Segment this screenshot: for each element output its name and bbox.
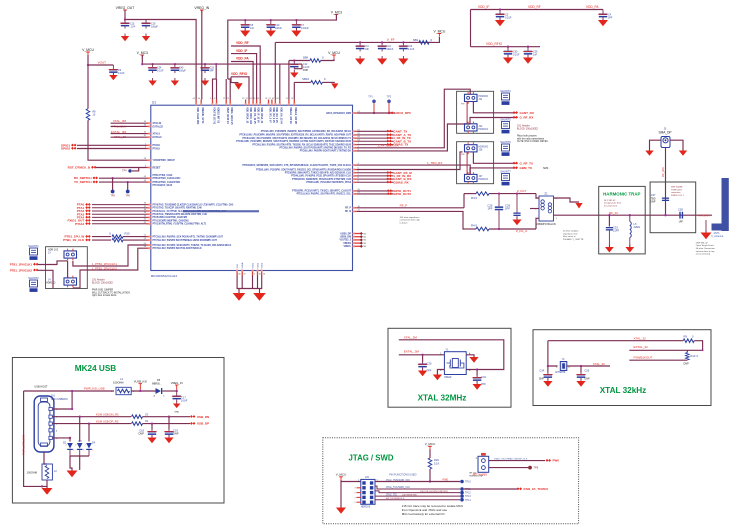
svg-text:XTAL 32kHz: XTAL 32kHz — [600, 386, 647, 395]
wire block out route2 — [110, 248, 147, 270]
wire GPIO2 — [77, 148, 147, 150]
svg-text:RF_P: RF_P — [400, 204, 408, 208]
svg-text:.1UF: .1UF — [130, 26, 136, 29]
wire R10 corner — [629, 341, 702, 351]
capacitor C15 0.1uF — [120, 20, 136, 29]
svg-text:VDD_PA: VDD_PA — [586, 5, 599, 9]
ground below C21 — [377, 56, 387, 65]
node 32k cap tap right — [580, 365, 582, 367]
MCU right pins NC stubs — [340, 232, 367, 248]
svg-text:PTD5/ADC0_SE6B/SPI0_PCS2/UART0: PTD5/ADC0_SE6B/SPI0_PCS2/UART0 CTS/FTM0_… — [292, 178, 352, 181]
net label RF_AM vertical — [661, 167, 665, 177]
svg-text:STACK DLY 1: STACK DLY 1 — [671, 194, 685, 197]
capacitor C8 1nF — [240, 19, 254, 30]
svg-text:7PF: 7PF — [481, 382, 486, 386]
svg-text:100pF: 100pF — [151, 26, 158, 29]
svg-text:PTB1_1PU/CLK2: PTB1_1PU/CLK2 — [10, 268, 33, 272]
svg-text:KSI9 USB DP_R5: KSI9 USB DP_R5 — [96, 420, 119, 424]
wire rail64 corner — [294, 64, 302, 69]
svg-text:SHUNT2: SHUNT2 — [28, 276, 39, 280]
svg-text:DNP: DNP — [139, 432, 145, 436]
svg-text:10K RESET(B): 10K RESET(B) — [402, 494, 417, 496]
svg-text:USB0_DP: USB0_DP — [340, 233, 351, 235]
node TP joints — [373, 112, 390, 114]
svg-text:KSI9_1K_TCMCU: KSI9_1K_TCMCU — [524, 487, 549, 491]
shunt SHUNT5 — [500, 118, 511, 134]
box MK24 USB outline — [12, 358, 224, 504]
svg-text:R10: R10 — [691, 354, 696, 358]
net label PWR_KSI_USB — [84, 387, 105, 391]
capacitor C30 0.1uF — [503, 46, 520, 57]
svg-text:PW0: PW0 — [443, 478, 449, 482]
wire Y1 pin4 gnd — [466, 355, 474, 357]
net label GANT_RX — [513, 111, 534, 115]
svg-text:EXTAL0: EXTAL0 — [153, 136, 163, 139]
svg-text:SH J14: SH J14 — [469, 473, 477, 475]
svg-text:SW_DIO/SWDCLK: SW_DIO/SWDCLK — [386, 498, 405, 500]
title HARMONIC TRAP — [603, 191, 640, 196]
svg-text:100OHM: 100OHM — [113, 380, 123, 384]
svg-text:VDD_IF3_3 V9: VDD_IF3_3 V9 — [275, 107, 277, 123]
inductor L5 22nH — [630, 215, 640, 247]
ground arrow SB10 — [331, 83, 338, 89]
svg-text:PTA5/USB CLK/FTM0_CH2/CM0: PTA5/USB CLK/FTM0_CH2/CM0 — [153, 216, 188, 219]
svg-text:Open Single Feed: Open Single Feed — [696, 245, 714, 247]
title XTAL 32kHz — [600, 386, 647, 395]
connector J27 HDR1X2 — [465, 172, 489, 184]
test point TP6 — [126, 190, 131, 198]
MCU right pins group2 — [243, 163, 360, 184]
ground below C24 — [148, 78, 156, 86]
svg-text:50 ohm stripline: 50 ohm stripline — [563, 230, 579, 233]
net label VDD_RF — [236, 41, 249, 45]
resistor R26 5.1K — [428, 458, 439, 469]
svg-text:USB_DN: USB_DN — [197, 415, 209, 419]
wire SB9 to V_MCU — [321, 59, 334, 61]
svg-text:to balun: to balun — [400, 222, 409, 225]
wire R11 top link — [686, 350, 688, 352]
svg-text:PWR GND JUMPER: PWR GND JUMPER — [92, 290, 114, 292]
svg-text:PTE1/LLWU_P0/SPI1_SOUT/UART1_R: PTE1/LLWU_P0/SPI1_SOUT/UART1_RX/I2C1_SCL — [297, 193, 352, 196]
wire row7 to jumper box1 — [357, 124, 470, 151]
value label RF note — [563, 230, 584, 241]
svg-text:impedance line: impedance line — [563, 233, 578, 235]
svg-text:VSS3: VSS3 — [262, 262, 264, 268]
ground below C9 — [109, 73, 117, 81]
svg-text:V_MCU: V_MCU — [425, 442, 436, 446]
svg-text:DNP: DNP — [173, 432, 179, 436]
power flag VREG_IN usb — [171, 381, 183, 391]
svg-text:VDD_RF2A_33: VDD_RF2A_33 — [246, 107, 249, 124]
net label VDD_RFIO — [231, 72, 248, 76]
node TP6 drop — [127, 181, 129, 183]
svg-text:C34: C34 — [539, 370, 544, 373]
node VREG_OUT junction — [124, 18, 126, 20]
svg-text:Z_FIL_A: Z_FIL_A — [516, 229, 527, 233]
connector J12 HDR1X2 — [465, 122, 489, 134]
MCU side stubs J15 odd pins — [354, 488, 360, 504]
svg-text:VDDA_ADC3 V0: VDDA_ADC3 V0 — [230, 107, 233, 125]
svg-text:100pF: 100pF — [179, 70, 186, 73]
wires JTAG rows — [375, 486, 460, 500]
MCU left pins PTB group — [144, 235, 232, 250]
wire R3 to C25 — [489, 193, 536, 195]
ground below C11 — [355, 56, 365, 65]
svg-text:RF_AM: RF_AM — [661, 167, 665, 177]
wire SMA to match box — [665, 148, 667, 216]
svg-text:PTC0/ADC0_SE14: PTC0/ADC0_SE14 — [153, 184, 173, 187]
ground below C17 — [173, 401, 181, 414]
wire top right rail — [471, 9, 604, 11]
MCU right pins GPIO pair — [292, 189, 361, 196]
wire VREG_IN to MCU pin — [201, 10, 203, 100]
wire block out route1 — [118, 245, 147, 266]
svg-text:*ABORT/RC_WKUP: *ABORT/RC_WKUP — [153, 159, 176, 162]
MCU left pins upper — [144, 121, 181, 184]
svg-text:Design parts here: Design parts here — [604, 202, 622, 205]
svg-text:capacitors: capacitors — [671, 191, 680, 194]
svg-text:JTAG_TDI: JTAG_TDI — [386, 493, 397, 496]
header box J11/J12 outline — [457, 91, 494, 133]
diode D5 MBR0520L — [152, 379, 165, 398]
net label VDD_RFIO right — [486, 42, 503, 46]
value label balun — [536, 223, 556, 226]
wire VDD_RFIO right rail — [471, 46, 541, 48]
svg-text:VREFH: VREFH — [343, 243, 351, 245]
svg-text:PIN: PIN — [461, 104, 465, 106]
value label trap note — [604, 200, 622, 208]
svg-text:USB0_DM: USB0_DM — [340, 237, 351, 239]
wire PSWB1KOUT — [629, 359, 687, 361]
wire RF split vertical — [463, 194, 465, 208]
node R11 junction — [702, 349, 704, 351]
svg-text:VUSB_KSI: VUSB_KSI — [134, 380, 147, 384]
wire EXTAL_3M — [111, 133, 147, 135]
net label PTB1_1PU_W — [65, 235, 91, 239]
svg-text:TX_SWITCH: TX_SWITCH — [74, 180, 91, 184]
net label KSI9_USB_DP — [96, 420, 119, 424]
ground below C23 — [201, 78, 209, 86]
wire RST to MCU — [96, 167, 147, 169]
svg-text:VDD_IF: VDD_IF — [478, 5, 489, 9]
ground ESD — [67, 468, 78, 477]
svg-text:100nF: 100nF — [387, 48, 394, 51]
wire V_MC3 rail — [142, 55, 302, 64]
ground below C31 — [472, 382, 481, 390]
svg-text:BLOCK 100x100E2: BLOCK 100x100E2 — [517, 128, 539, 131]
svg-text:DNP: DNP — [303, 69, 308, 72]
connector J11 HDR1X2 — [465, 92, 489, 104]
wire USB DN out — [143, 416, 191, 418]
wire TP5 drop — [112, 178, 114, 190]
power flag V_MCU mid — [328, 51, 340, 58]
svg-text:RF_IO: RF_IO — [609, 211, 619, 215]
svg-text:1_RF_DBM_TX: 1_RF_DBM_TX — [377, 144, 398, 148]
resistor R8 10 — [86, 109, 96, 121]
box JTAG SWD outline — [323, 438, 579, 524]
value label JTAG TOUCH — [494, 457, 528, 460]
net label VDD_IF top right — [478, 5, 489, 9]
resistor R15 0 — [109, 232, 130, 239]
svg-text:8MHZ: 8MHZ — [444, 375, 451, 379]
value label J16 — [51, 395, 68, 402]
capacitor C35 DNP — [576, 370, 590, 381]
wire XTAL_3M loop — [399, 340, 504, 370]
svg-text:Z_FILT: Z_FILT — [517, 189, 526, 193]
ground Y1 pin4 — [469, 355, 478, 363]
net label 1_PTB1 overlay2 — [92, 267, 117, 271]
ground JTAG left — [336, 505, 346, 514]
MCU bottom VSS pins — [236, 262, 266, 275]
wire V_MCU to VOUT node — [87, 55, 89, 65]
svg-text:R4 0: R4 0 — [471, 224, 477, 228]
net label VDD_RF top right — [528, 5, 541, 9]
title MK24 USB — [75, 364, 116, 373]
wire USB DN — [52, 416, 131, 418]
svg-text:XTAL_3M: XTAL_3M — [404, 336, 418, 340]
net labels right group2 wires — [357, 171, 413, 185]
svg-text:XTAL_3M: XTAL_3M — [113, 119, 127, 123]
svg-text:VDD_KA33 VD3: VDD_KA33 VD3 — [196, 107, 199, 125]
highlight underline row — [183, 210, 259, 212]
svg-text:RESET: RESET — [153, 166, 162, 169]
svg-text:PTC6/LLWU_P6/SPI0 SOUT/UART1 T: PTC6/LLWU_P6/SPI0 SOUT/UART1 TX/TMG DK — [300, 150, 352, 153]
net label RST_DTMCU_B — [68, 166, 97, 170]
svg-text:PTC6/LLWU_P10 P10/SPI0_SOUT/UA: PTC6/LLWU_P10 P10/SPI0_SOUT/UART0_RX/CMP… — [242, 137, 351, 140]
wire pin 294 up — [293, 82, 295, 99]
wire row2 to flag — [464, 488, 517, 490]
net label RF_P — [400, 204, 408, 208]
svg-text:DNP: DNP — [539, 378, 544, 381]
svg-text:0.1UF: 0.1UF — [157, 70, 164, 73]
ground arrow VDD_RFIO branch — [234, 83, 242, 89]
capacitor C24 0.1uF — [148, 63, 164, 73]
net label RX_SWITCH — [74, 176, 98, 180]
wire C35 drop — [580, 366, 582, 373]
net label 1_TRD_RX — [427, 161, 442, 165]
svg-text:PTC6/LLWU_P10/CMP0_IN0/SPI0_SO: PTC6/LLWU_P10/CMP0_IN0/SPI0_SOUT/PDB0_EX… — [261, 131, 352, 133]
capacitor C19 DNP — [164, 429, 179, 438]
wire J14 to PW0 — [489, 460, 545, 462]
svg-text:GPIO2: GPIO2 — [61, 147, 71, 151]
node 32k cap tap left — [547, 365, 549, 367]
ground below C12 — [290, 70, 298, 78]
net label Z_FIL_A — [516, 229, 527, 233]
svg-text:10K PULLDOWN (DNP R21): 10K PULLDOWN (DNP R21) — [420, 491, 448, 493]
svg-text:SB9: SB9 — [303, 56, 309, 60]
svg-text:JTAG_TOUCHPAD CMD/DF_CLK: JTAG_TOUCHPAD CMD/DF_CLK — [494, 457, 528, 460]
transformer Z1 balun — [535, 192, 557, 221]
svg-text:SHUNT6: SHUNT6 — [500, 140, 511, 144]
wire J26-J27 link — [466, 152, 468, 175]
net label RF_ANT — [699, 213, 711, 217]
svg-text:RST_DTMCU_B: RST_DTMCU_B — [68, 166, 91, 170]
svg-text:V_MC3: V_MC3 — [331, 10, 342, 14]
net label KSI_1K_TCMCU — [517, 487, 549, 491]
ground USB shield — [42, 486, 53, 495]
svg-text:PTB1_1N_CLK: PTB1_1N_CLK — [63, 238, 85, 242]
svg-text:PTB1_1PU/CLK1: PTB1_1PU/CLK1 — [10, 263, 33, 267]
wire balun pin2 stub — [530, 208, 539, 210]
svg-text:RF_N: RF_N — [345, 211, 351, 213]
svg-text:XTAL_32: XTAL_32 — [593, 362, 605, 366]
net label PW0 row1 — [443, 478, 449, 482]
pin label PIN1 — [461, 104, 465, 106]
net label RF_IO — [609, 211, 619, 215]
svg-text:R3 0: R3 0 — [471, 196, 477, 200]
test point TP13 — [460, 494, 471, 498]
crystal Y2 32768Hz — [555, 358, 571, 374]
svg-text:BLOCK 100x100E2: BLOCK 100x100E2 — [92, 282, 114, 285]
net label XTAL_3M — [113, 119, 127, 123]
crystal Y1 8MHz — [440, 348, 471, 380]
wire GPIO1 — [77, 144, 147, 146]
svg-text:100 ohm impedance: 100 ohm impedance — [400, 217, 421, 219]
net label KSI9_USB_DN — [96, 413, 119, 417]
svg-text:HDR2X5: HDR2X5 — [361, 505, 371, 508]
svg-text:MCU exclusively for external I: MCU exclusively for external I/O — [402, 512, 446, 516]
svg-text:0.01UF: 0.01UF — [301, 27, 309, 30]
svg-text:V_MC3: V_MC3 — [137, 51, 148, 55]
value label JTAG row3 — [386, 493, 417, 496]
wire D5 to VREG_IN — [162, 390, 176, 392]
node Y1 pin3 junction — [476, 368, 478, 370]
ground MCU VSS left — [233, 291, 246, 301]
svg-text:VDD_IF_33 V6: VDD_IF_33 V6 — [257, 107, 259, 123]
resistor SB9 0 — [303, 56, 324, 63]
svg-text:C20: C20 — [427, 362, 432, 366]
svg-text:VOUT33_2: VOUT33_2 — [340, 240, 352, 242]
svg-text:PTA19: PTA19 — [153, 147, 161, 150]
ground below C40 — [171, 78, 179, 86]
resistor R13 33 — [132, 412, 149, 418]
node ESD taps — [69, 416, 90, 439]
svg-text:C28: C28 — [678, 208, 683, 212]
wire PTB row2 left — [92, 239, 111, 241]
wire VREG_OUT rail to pin — [172, 20, 196, 100]
value label PIN FUNCTIONS — [389, 473, 416, 476]
svg-text:MBR05...: MBR05... — [152, 383, 162, 385]
net label GPIO_A — [387, 189, 411, 193]
header block J3 outline — [46, 247, 88, 289]
net label GPIO2 — [61, 147, 77, 151]
svg-text:1_TRD_RX: 1_TRD_RX — [427, 161, 442, 165]
test point TP11 — [460, 487, 471, 491]
node VBUS pin1 — [71, 390, 73, 410]
connector J3 HDR1X2 — [48, 249, 77, 261]
wire V_FF rail — [275, 41, 432, 43]
test point TP8 — [528, 466, 539, 470]
resistor R11 0 DNP — [684, 353, 699, 366]
svg-text:Y1: Y1 — [445, 348, 449, 352]
capacitor C21 100nF — [377, 41, 394, 51]
wire row 169 to box2 — [357, 152, 463, 170]
wire balun pin4 in — [536, 194, 539, 198]
svg-text:100OHM: 100OHM — [27, 471, 37, 475]
value label JTAG note — [402, 504, 464, 516]
svg-text:1PF: 1PF — [505, 207, 510, 211]
svg-text:G_RF_TX: G_RF_TX — [520, 161, 534, 165]
svg-text:PTD3/SPI0_SIN/UART2_TX/I2C0 SD: PTD3/SPI0_SIN/UART2_TX/I2C0 SDA/FB_AD3 S… — [285, 172, 352, 175]
svg-text:5: 5 — [354, 493, 355, 495]
net label PSWB1KOUT — [634, 355, 653, 359]
svg-text:SB3: SB3 — [413, 38, 419, 42]
svg-text:Z1: Z1 — [544, 192, 548, 196]
svg-text:5.1K: 5.1K — [434, 462, 440, 466]
wire GPIO pair 2 — [357, 193, 394, 195]
svg-text:GBM_TX: GBM_TX — [520, 166, 533, 170]
wire XTAL_32 top — [548, 340, 683, 342]
svg-text:HDR1X2: HDR1X2 — [46, 282, 56, 285]
wire PTB row2 right — [123, 239, 147, 241]
svg-text:3PF: 3PF — [608, 17, 613, 20]
wire RX_SWITCH — [99, 177, 147, 179]
svg-text:Place both jumpers: Place both jumpers — [517, 135, 538, 138]
wire pin stub — [216, 79, 218, 99]
wire pin 288 up — [288, 61, 290, 100]
svg-text:SHUNT7: SHUNT7 — [500, 170, 511, 174]
capacitor C29 1nF — [523, 46, 538, 57]
node VREG_IN junction — [176, 390, 178, 392]
ground below C35 — [576, 379, 585, 387]
power flag V_MCU top — [433, 29, 445, 36]
svg-text:PSWB1KOUT: PSWB1KOUT — [634, 355, 653, 359]
box HARMONIC TRAP outline — [599, 186, 646, 254]
svg-text:VOUT33_DC V1: VOUT33_DC V1 — [212, 107, 214, 125]
net label 1_PTB1 overlay1 — [92, 262, 117, 266]
svg-text:JTAG_TCK/SWD_CLK: JTAG_TCK/SWD_CLK — [386, 486, 411, 489]
wire R3 row — [464, 193, 476, 195]
svg-text:USB_DP: USB_DP — [197, 422, 209, 426]
svg-text:V_MCU: V_MCU — [336, 473, 347, 477]
wire TX_SWITCH — [99, 181, 147, 183]
value label USB HOST — [34, 384, 48, 388]
svg-text:F_Antenna: F_Antenna — [712, 235, 724, 238]
svg-text:PTB17/TSI0_CH10: PTB17/TSI0_CH10 — [153, 175, 174, 177]
ground below C34 — [543, 379, 552, 387]
ground below C10 — [266, 28, 276, 37]
pin label PIN2 — [461, 154, 465, 156]
net label XBL_32 — [593, 362, 605, 366]
svg-text:VOUT: VOUT — [98, 61, 107, 65]
ground below L5 — [625, 245, 634, 253]
svg-text:DLY 581.02: DLY 581.02 — [604, 200, 616, 202]
svg-text:XTAL0: XTAL0 — [153, 133, 161, 136]
connector J5 SMA symbol — [661, 137, 670, 148]
svg-text:VDD_RF1A_33: VDD_RF1A_33 — [260, 107, 263, 124]
wire pin stub 230 — [228, 79, 230, 100]
power flag V_MCU left — [82, 48, 94, 55]
svg-text:for chief work: for chief work — [604, 204, 618, 207]
svg-text:RF_ANT: RF_ANT — [699, 213, 711, 217]
svg-text:PTA1/TAG_TOUC2P_B/UART1 RX/FTM: PTA1/TAG_TOUC2P_B/UART1 RX/FTM0_CH6 — [153, 207, 203, 210]
svg-text:1_PTB1_1PU/CLK1: 1_PTB1_1PU/CLK1 — [92, 262, 117, 266]
svg-text:PTA3/TAG_TMS/B/UART0 RGANTE RX: PTA3/TAG_TMS/B/UART0 RGANTE RX/FTM0_CH0 — [153, 213, 208, 216]
ground below C5 — [495, 18, 505, 27]
node C20 tap — [421, 354, 423, 356]
wire V_FF down to pin — [274, 42, 276, 99]
svg-text:VREFL: VREFL — [343, 246, 351, 248]
svg-text:2: 2 — [66, 445, 67, 447]
svg-text:2: 2 — [85, 445, 86, 447]
wire ESD drop2 — [79, 417, 81, 442]
wire L4 to D5 — [131, 390, 155, 392]
net label USB_DN — [190, 415, 209, 419]
capacitor C5 0.1uF — [495, 8, 512, 19]
wire PTB row1 right — [123, 236, 147, 238]
wire balun pin6 gnd — [554, 198, 580, 202]
wire VOUT to C9 — [88, 64, 113, 66]
